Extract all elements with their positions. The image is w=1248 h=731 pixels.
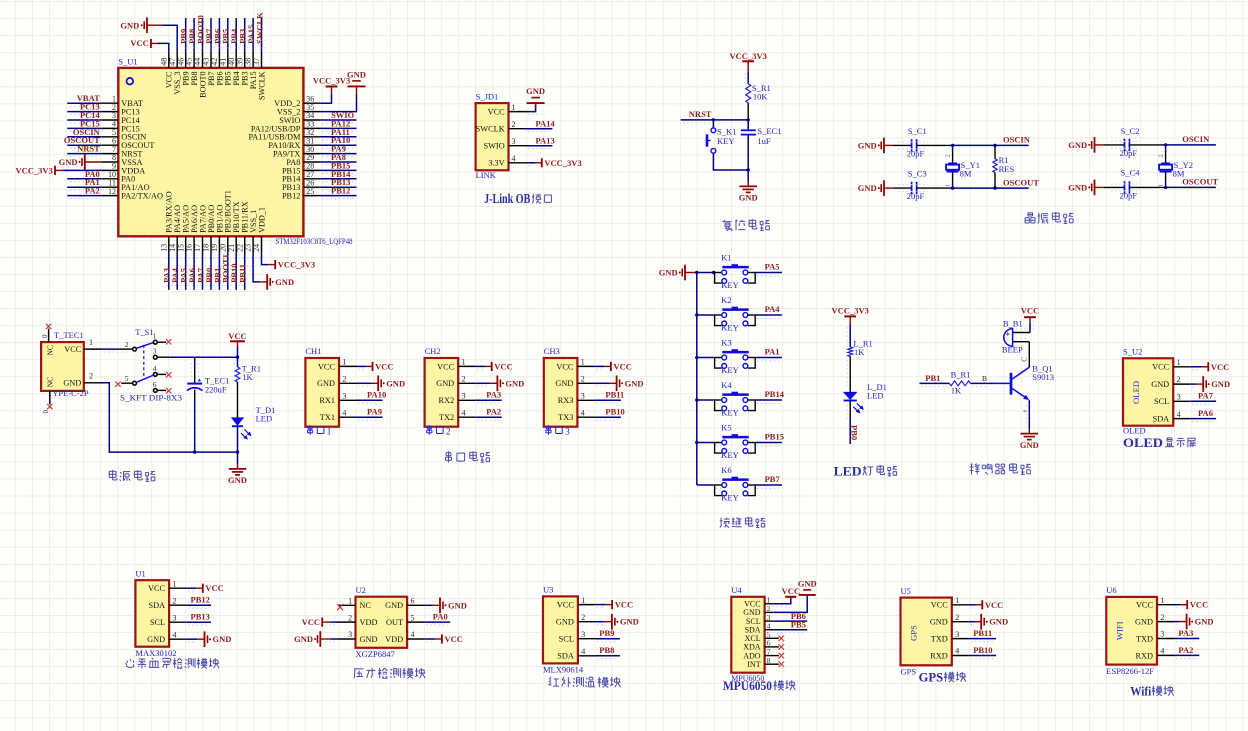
svg-text:3: 3 <box>1160 630 1164 639</box>
no-ERC crosses on unused switch contacts <box>115 339 171 393</box>
svg-text:T_TEC1: T_TEC1 <box>54 330 84 340</box>
svg-text:5: 5 <box>411 613 415 622</box>
wire + net label PB15 (key K5) <box>756 431 784 446</box>
MCU pin 28 PB15 (right) <box>282 162 320 176</box>
module U4 body (MPU6050) <box>731 597 764 673</box>
wire U1 pin1 + power port VCC <box>186 583 224 593</box>
svg-text:K2: K2 <box>721 295 731 305</box>
svg-text:1: 1 <box>342 358 346 367</box>
wire + net label PA3 (U6 pin3) <box>1174 628 1199 642</box>
power port VCC at MCU pin 48 <box>130 38 158 48</box>
svg-text:2: 2 <box>1177 375 1181 384</box>
svg-text:KEY: KEY <box>721 365 738 375</box>
svg-text:GND: GND <box>59 157 78 167</box>
wire + net label VBAT (MCU pin 1) <box>67 93 101 106</box>
svg-text:LED: LED <box>834 464 862 479</box>
U4 pin 7 ADO <box>743 647 779 660</box>
svg-text:20pF: 20pF <box>1120 190 1138 200</box>
wire + net label PA3 (MCU pin 13) <box>162 253 172 290</box>
svg-text:2: 2 <box>348 613 352 622</box>
svg-text:PB12: PB12 <box>191 595 210 605</box>
J-Link pin 2 SWCLK <box>476 120 526 134</box>
svg-text:GND: GND <box>659 268 678 278</box>
svg-text:1: 1 <box>955 596 959 605</box>
U6 pin 1 VCC <box>1136 596 1174 610</box>
CH1 pin 1 VCC <box>318 358 356 372</box>
wire + net label PA4 (MCU pin 14) <box>170 253 180 290</box>
push button K5 KEY <box>697 422 756 460</box>
wire + net label PA10 (CH1 pin3) <box>356 390 386 404</box>
module U6 body (ESP8266-12F) <box>1106 597 1157 665</box>
U6 part name ESP8266-12F <box>1106 666 1154 676</box>
U4 pin 3 SCL <box>746 613 773 626</box>
U4 pin 4 SDA <box>745 622 774 635</box>
wire CH3 pin1 + power port VCC <box>594 361 632 371</box>
wire + net label OSCIN <box>995 135 1031 146</box>
svg-text:GND: GND <box>989 617 1008 627</box>
push button K2 KEY <box>697 295 756 333</box>
svg-text:PB13: PB13 <box>191 612 210 622</box>
wire + net label PA0 (MCU pin 10) <box>67 169 101 182</box>
wire U3 pin2 + power ground GND <box>595 614 639 630</box>
wire U2 pin3 + power ground GND <box>294 631 338 647</box>
wire + net label PA8 (MCU pin 29) <box>320 152 356 165</box>
power ground GND at MCU pin 47 <box>120 17 163 33</box>
svg-text:NC: NC <box>46 345 55 355</box>
svg-text:CH1: CH1 <box>305 346 321 356</box>
CH3 designator <box>544 346 560 356</box>
push button K4 KEY <box>697 380 756 418</box>
svg-text:SCL: SCL <box>150 618 165 627</box>
svg-text:OLED: OLED <box>1123 425 1146 435</box>
wire + net label OSCOUT <box>995 177 1039 188</box>
svg-text:2: 2 <box>1160 613 1164 622</box>
U3 pin 2 GND <box>556 613 595 627</box>
svg-text:XGZP6847: XGZP6847 <box>356 649 395 659</box>
svg-text:GND: GND <box>556 618 574 627</box>
svg-text:1K: 1K <box>242 372 253 382</box>
wire CH1 pin1 + power port VCC <box>356 361 394 371</box>
MCU pin 25 PB12 (right) <box>282 187 320 201</box>
section title LED circuit <box>834 464 897 479</box>
U5 designator <box>901 586 911 596</box>
U2 pin 3 GND (left) <box>339 630 378 644</box>
wire MCU pin23 VSS_1 to GND <box>253 253 260 282</box>
wire B_R1 to base + label B <box>970 374 1009 387</box>
CH3 pin 3 RX3 <box>558 392 595 406</box>
svg-text:GND: GND <box>1020 440 1039 450</box>
wire CH2 pin1 + power port VCC <box>475 361 513 371</box>
wire + net label PB12 (MCU pin 25) <box>320 186 356 199</box>
wire L_R1 to LED L_D1 <box>847 356 850 392</box>
section title MPU6050 module <box>723 678 795 693</box>
svg-text:GND: GND <box>1068 182 1087 192</box>
svg-text:PB10: PB10 <box>973 645 992 655</box>
CH1 pin 4 TX1 <box>320 408 356 422</box>
svg-text:K4: K4 <box>721 380 732 390</box>
OLED pin 4 SDA <box>1153 410 1191 424</box>
svg-text:37: 37 <box>252 58 261 66</box>
svg-text:VCC: VCC <box>148 584 166 593</box>
module U5 body (GPS) <box>901 598 952 666</box>
junction node OSCIN <box>1164 143 1167 146</box>
svg-text:SDA: SDA <box>557 652 574 661</box>
svg-text:SCL: SCL <box>1154 397 1169 406</box>
svg-text:NRST: NRST <box>77 144 100 154</box>
U5 part name GPS <box>901 667 917 677</box>
svg-text:KEY: KEY <box>721 280 738 290</box>
wire NRST node down to key S_K1 <box>712 120 714 128</box>
ground GND (buzzer) <box>1020 429 1039 450</box>
svg-text:1: 1 <box>581 596 585 605</box>
svg-text:U5: U5 <box>901 586 911 596</box>
svg-text:220uF: 220uF <box>205 384 227 394</box>
wire TEC1 pin2 to ground rail <box>101 383 238 452</box>
svg-text:BEEP: BEEP <box>1002 345 1023 355</box>
wire + net label PB3 (MCU pin 39) <box>238 18 248 51</box>
wire emitter to GND + rotated label e <box>1022 400 1030 429</box>
CH1 pin 2 GND <box>317 375 356 389</box>
wire + net label PB11 (MCU pin 22) <box>238 253 248 290</box>
svg-text:3: 3 <box>342 392 346 401</box>
svg-text:25: 25 <box>306 187 314 196</box>
TEC1 NC pin names (rotated) <box>46 345 55 387</box>
svg-text:2: 2 <box>512 120 516 129</box>
power ground GND at cap C4 <box>1068 180 1103 196</box>
wire + net label OSCOUT <box>1166 177 1219 188</box>
svg-text:PA2: PA2 <box>85 186 100 196</box>
svg-text:XDA: XDA <box>743 643 761 652</box>
TEC1 pin 2 GND <box>63 372 101 388</box>
MCU pin 13 PA3/RX/AO (bottom) <box>159 191 173 253</box>
svg-text:NC: NC <box>360 601 372 610</box>
svg-text:GPS: GPS <box>909 625 919 641</box>
wire TEC1 pin1 to switch T_S1 <box>101 349 132 352</box>
svg-text:SWCLK: SWCLK <box>257 71 266 100</box>
wire OLED pin1 + power port VCC <box>1190 362 1229 372</box>
svg-text:CH3: CH3 <box>544 346 560 356</box>
svg-text:GND: GND <box>526 86 545 96</box>
svg-text:4: 4 <box>153 364 157 373</box>
wire + net label PB5 (U4 pin4) <box>773 620 807 630</box>
svg-text:GND: GND <box>213 634 232 644</box>
svg-text:GND: GND <box>120 20 139 30</box>
wire + net label PB11 (CH3 pin3) <box>594 390 624 404</box>
T_TEC1 part name TYPE-C-2P <box>47 388 89 398</box>
svg-text:K1: K1 <box>721 252 731 262</box>
svg-text:VCC: VCC <box>318 362 336 371</box>
svg-text:S_C1: S_C1 <box>908 126 927 136</box>
svg-text:OSCOUT: OSCOUT <box>1182 177 1218 187</box>
wire buzzer to transistor collector <box>1021 342 1030 368</box>
svg-text:3: 3 <box>581 630 585 639</box>
CH2 pin 3 RX2 <box>439 392 476 406</box>
MCU pin 41 PB5 (top) <box>218 51 232 85</box>
svg-text:VCC: VCC <box>445 634 463 644</box>
CH2 pin 2 GND <box>436 375 475 389</box>
svg-text:VCC: VCC <box>614 361 632 371</box>
dotted grid marks above MCU top pins <box>184 40 266 48</box>
wire U5 pin2 + power ground GND <box>969 614 1008 630</box>
svg-text:1: 1 <box>1158 184 1165 187</box>
svg-text:S9013: S9013 <box>1032 372 1054 382</box>
wire J-Link pin4 + power port VCC_3V3 <box>526 158 582 168</box>
svg-text:2: 2 <box>173 596 177 605</box>
svg-text:PA6: PA6 <box>1198 408 1213 418</box>
svg-text:GPS: GPS <box>901 667 917 677</box>
U1 part name MAX30102 <box>135 648 176 658</box>
wire + net label PB6 (MCU pin 42) <box>212 18 222 51</box>
switch T_S1 S_KFT DIP-8X3 <box>120 327 182 402</box>
wire + net label PC13 (MCU pin 2) <box>67 102 101 115</box>
wire OLED pin2 + power ground GND <box>1190 376 1230 392</box>
MCU pin 26 PB13 (right) <box>282 178 320 192</box>
wire + net label PB8 (U3 pin4) <box>595 645 620 659</box>
svg-text:GND: GND <box>620 617 639 627</box>
MCU pin 38 PA15 (top) <box>244 51 258 89</box>
svg-text:VCC: VCC <box>1211 362 1229 372</box>
svg-text:1K: 1K <box>951 386 962 396</box>
J-Link pin 4 3.3V <box>488 154 525 168</box>
MCU pin 44 BOOT0 (top) <box>193 51 207 97</box>
MCU pin 5 OSCIN (left) <box>101 128 146 142</box>
svg-text:TYPE-C-2P: TYPE-C-2P <box>47 388 89 398</box>
power ground GND above U4 <box>798 579 817 595</box>
svg-text:2: 2 <box>581 613 585 622</box>
svg-text:S_EC1: S_EC1 <box>757 126 781 136</box>
section title buzzer circuit <box>970 463 1031 474</box>
section title WiFi module <box>1130 683 1174 698</box>
svg-text:1: 1 <box>89 338 93 347</box>
MCU pin 43 PB7 (top) <box>202 51 216 85</box>
svg-text:S_C4: S_C4 <box>1121 168 1141 178</box>
svg-text:OUT: OUT <box>386 618 403 627</box>
svg-text:1K: 1K <box>854 347 865 357</box>
svg-text:VDD: VDD <box>385 635 403 644</box>
svg-text:VCC_3V3: VCC_3V3 <box>730 51 767 61</box>
svg-text:S_C2: S_C2 <box>1121 126 1140 136</box>
U3 designator <box>543 585 553 595</box>
U5 rotated name inside body <box>909 625 919 641</box>
svg-text:PA7: PA7 <box>1198 391 1214 401</box>
wire + net label PB4 (MCU pin 40) <box>229 18 239 51</box>
svg-text:MLX90614: MLX90614 <box>543 665 584 675</box>
svg-text:3: 3 <box>581 392 585 401</box>
svg-text:LED: LED <box>256 414 273 424</box>
svg-text:LED: LED <box>867 390 884 400</box>
svg-text:PB15: PB15 <box>765 431 784 441</box>
MCU pin 42 PB6 (top) <box>210 51 224 85</box>
wire + net label PA5 (MCU pin 15) <box>179 253 189 290</box>
wire + net label PA9 (MCU pin 30) <box>320 144 356 157</box>
wire + net label PA7 (OLED pin3) <box>1190 391 1216 405</box>
wire + net label PA9 (CH1 pin4) <box>356 407 383 421</box>
svg-text:TX1: TX1 <box>320 413 335 422</box>
wire + net label PB1 (buzzer base drive) <box>920 373 950 387</box>
connector JD1 part name LINK <box>476 170 497 180</box>
svg-text:RX3: RX3 <box>558 396 574 405</box>
capacitor S_EC1 1uF (reset) <box>741 120 782 170</box>
power ground GND (key circuit) <box>659 265 697 281</box>
U3 pin 4 SDA <box>557 647 595 661</box>
U6 rotated name inside body <box>1114 621 1124 640</box>
wire + net label PA14 (J-Link pin2) <box>526 119 556 132</box>
svg-text:3: 3 <box>462 392 466 401</box>
svg-text:VCC: VCC <box>375 361 393 371</box>
section title serial port circuit <box>445 451 489 462</box>
MCU pin 36 VDD_2 (right) <box>274 94 320 108</box>
MCU pin 32 PA11/USB/DM (right) <box>248 128 320 142</box>
MCU S_U1 designator <box>118 56 137 66</box>
svg-text:3: 3 <box>153 347 157 356</box>
svg-text:K6: K6 <box>721 465 731 475</box>
wire + net label BOOT0 (MCU pin 44) <box>195 15 205 51</box>
no-ERC cross on U2 pin1 <box>337 604 343 610</box>
U2 pin 6 GND (right) <box>385 597 424 611</box>
section title crystal circuit <box>1025 212 1073 223</box>
svg-text:U3: U3 <box>543 585 553 595</box>
svg-text:2: 2 <box>342 375 346 384</box>
U1 designator <box>135 568 145 578</box>
wire + net label PB10 (CH3 pin4) <box>594 407 624 421</box>
MCU pin 48 VCC (top) <box>159 51 173 88</box>
svg-text:SDA: SDA <box>148 601 165 610</box>
crystal S_Y2 8M <box>1158 145 1193 188</box>
svg-text:GND: GND <box>1135 618 1153 627</box>
MCU pin 37 SWCLK (top) <box>252 51 266 100</box>
no-ERC crosses U4 pins 5-8 <box>779 636 785 668</box>
wire C1 to OSCIN node <box>917 144 995 146</box>
svg-text:T_S1: T_S1 <box>135 327 153 337</box>
svg-text:VCC_3V3: VCC_3V3 <box>15 165 52 175</box>
svg-text:VDD_1: VDD_1 <box>257 207 266 233</box>
svg-text:VCC_3V3: VCC_3V3 <box>313 76 350 86</box>
wire + net label PA12 (MCU pin 33) <box>320 118 356 131</box>
svg-text:PA0: PA0 <box>433 612 448 622</box>
power ground GND at cap C1 <box>858 138 893 154</box>
wire U3 pin1 + power port VCC <box>595 600 633 610</box>
U6 pin 3 TXD <box>1136 630 1174 644</box>
U1 pin 3 SCL <box>150 613 186 627</box>
wire U2 pin6 + power ground GND <box>424 598 467 614</box>
wire U4 pin1 to VCC <box>773 597 791 604</box>
wire CH3 pin2 + power ground GND <box>594 376 643 392</box>
ground rail wire (key circuit) <box>696 273 698 486</box>
svg-text:VCC_3V3: VCC_3V3 <box>278 260 315 270</box>
svg-text:SWCLK: SWCLK <box>254 12 264 44</box>
wire + net label PA6 (OLED pin4) <box>1190 408 1216 422</box>
svg-text:OSCOUT: OSCOUT <box>1003 177 1039 187</box>
svg-text:GND: GND <box>317 379 335 388</box>
MCU pin 10 PA0 (left) <box>101 170 135 184</box>
svg-text:2: 2 <box>581 375 585 384</box>
MCU pin 29 PA8 (right) <box>286 153 320 167</box>
wire U5 pin1 + power port VCC <box>969 600 1004 610</box>
svg-text:KEY: KEY <box>721 450 738 460</box>
svg-text:24: 24 <box>252 244 261 252</box>
wire + net label PA13 (J-Link pin3) <box>526 136 555 149</box>
capacitor C1 20pF <box>893 126 928 159</box>
svg-text:OSCIN: OSCIN <box>1003 135 1031 145</box>
MCU pin 39 PB3 (top) <box>235 51 249 85</box>
MCU pin 14 PA4/AO (bottom) <box>168 205 182 253</box>
LED L_D1 <box>843 382 887 413</box>
module U1 body (MAX30102) <box>135 580 169 647</box>
dotted marks near U4 pins <box>768 607 805 633</box>
svg-text:PA14: PA14 <box>536 119 556 129</box>
svg-text:GND: GND <box>1151 380 1169 389</box>
svg-text:GND: GND <box>858 183 877 193</box>
ground GND (reset circuit) <box>739 170 758 203</box>
wire + net label PC14 (MCU pin 3) <box>67 110 101 123</box>
U5 pin 1 VCC <box>931 596 969 610</box>
svg-text:PB11: PB11 <box>605 390 624 400</box>
svg-text:2: 2 <box>89 372 93 381</box>
wire + net label PB6 (U4 pin3) <box>773 611 807 621</box>
resistor S_R1 10K (reset pull-up) <box>746 83 771 103</box>
svg-text:S_U2: S_U2 <box>1123 347 1142 357</box>
svg-text:1: 1 <box>1177 358 1181 367</box>
svg-text:VCC: VCC <box>557 601 575 610</box>
T_TEC1 designator <box>54 330 84 340</box>
wire + net label PB7 (MCU pin 43) <box>204 18 214 51</box>
svg-text:2: 2 <box>767 604 771 613</box>
svg-text:0: 0 <box>42 410 50 414</box>
svg-text:GND: GND <box>1195 617 1214 627</box>
svg-text:GND: GND <box>1211 379 1230 389</box>
svg-text:2: 2 <box>1158 154 1165 157</box>
push button K3 KEY <box>697 337 756 375</box>
OLED rotated name inside body <box>1131 381 1141 404</box>
wire MCU pin35 VSS_2 to GND <box>320 94 356 112</box>
svg-text:VCC: VCC <box>1021 305 1039 315</box>
section title OLED display <box>1123 436 1196 450</box>
svg-text:PA3: PA3 <box>486 390 501 400</box>
U4 designator <box>731 585 742 595</box>
S_U2 part name OLED <box>1123 425 1146 435</box>
connector JD1 body - J-Link S_JD1 <box>476 103 509 170</box>
svg-text:TXD: TXD <box>1136 634 1153 643</box>
svg-text:3: 3 <box>348 630 352 639</box>
svg-text:1: 1 <box>945 184 952 187</box>
svg-text:PB14: PB14 <box>765 389 785 399</box>
svg-text:PB12: PB12 <box>282 192 300 201</box>
power port VCC (buzzer) <box>1021 305 1039 322</box>
U3 part name MLX90614 <box>543 665 584 675</box>
svg-text:PB12: PB12 <box>331 186 350 196</box>
section title power circuit <box>109 470 155 481</box>
svg-text:3.3V: 3.3V <box>488 159 504 168</box>
resistor R1 RES (crystal feedback) <box>993 145 1015 188</box>
svg-text:1: 1 <box>581 358 585 367</box>
svg-text:4: 4 <box>955 647 959 656</box>
svg-text:PB11: PB11 <box>973 628 992 638</box>
section title infrared temperature module <box>549 677 621 688</box>
svg-text:VCC: VCC <box>64 345 82 354</box>
junction nodes on key ground rail <box>695 271 715 444</box>
wire U1 pin4 + power ground GND <box>186 631 231 647</box>
svg-text:RXD: RXD <box>1135 651 1153 660</box>
svg-text:1: 1 <box>512 103 516 112</box>
svg-text:KEY: KEY <box>721 408 738 418</box>
svg-text:VCC_3V3: VCC_3V3 <box>544 158 581 168</box>
MCU pin 7 NRST (left) <box>101 145 142 159</box>
svg-text:PA13: PA13 <box>536 136 555 146</box>
svg-text:SDA: SDA <box>1153 414 1170 423</box>
svg-text:U2: U2 <box>356 585 366 595</box>
section title GPS module <box>919 670 966 685</box>
svg-text:PB9: PB9 <box>599 628 614 638</box>
